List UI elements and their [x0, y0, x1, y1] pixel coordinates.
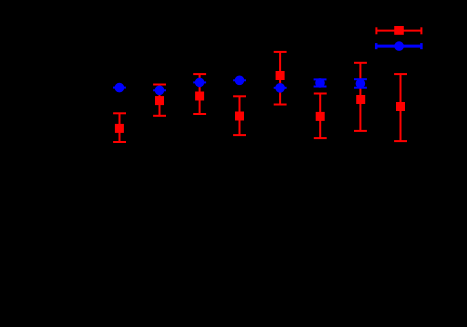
red point 5 marker [276, 71, 285, 80]
blue point 1 error bar [113, 87, 126, 89]
red point 8 marker [396, 102, 405, 111]
red point 7 marker [356, 95, 365, 104]
red point 1 marker [115, 124, 124, 133]
blue point 4 marker [235, 76, 245, 86]
blue point 5 error bar [274, 87, 287, 89]
blue point 3 marker [195, 78, 205, 88]
blue point 4 error bar [233, 79, 246, 81]
red point 6 marker [316, 112, 325, 121]
blue point 7 error bar [354, 79, 367, 88]
legend blue entry marker [394, 41, 404, 51]
red point 4 error bar [233, 96, 246, 135]
legend blue entry line [376, 43, 421, 49]
red point 1 error bar [113, 113, 126, 142]
red point 5 error bar [274, 52, 287, 105]
legend red entry marker [394, 26, 404, 35]
blue point 6 marker [315, 78, 325, 88]
red point 3 error bar [193, 74, 206, 114]
red point 4 marker [235, 112, 244, 121]
red point 6 error bar [314, 94, 327, 139]
blue point 2 marker [155, 86, 165, 96]
legend red entry line [376, 27, 421, 34]
blue point 2 error bar [153, 89, 166, 91]
blue point 1 marker [115, 83, 125, 93]
blue point 3 error bar [193, 81, 206, 83]
red point 8 error bar [394, 74, 407, 141]
red point 2 error bar [153, 85, 166, 116]
blue point 6 error bar [314, 79, 327, 86]
blue point 5 marker [275, 83, 285, 93]
red point 3 marker [195, 92, 204, 101]
red point 2 marker [155, 96, 164, 105]
red point 7 error bar [354, 63, 367, 131]
blue point 7 marker [356, 79, 366, 89]
